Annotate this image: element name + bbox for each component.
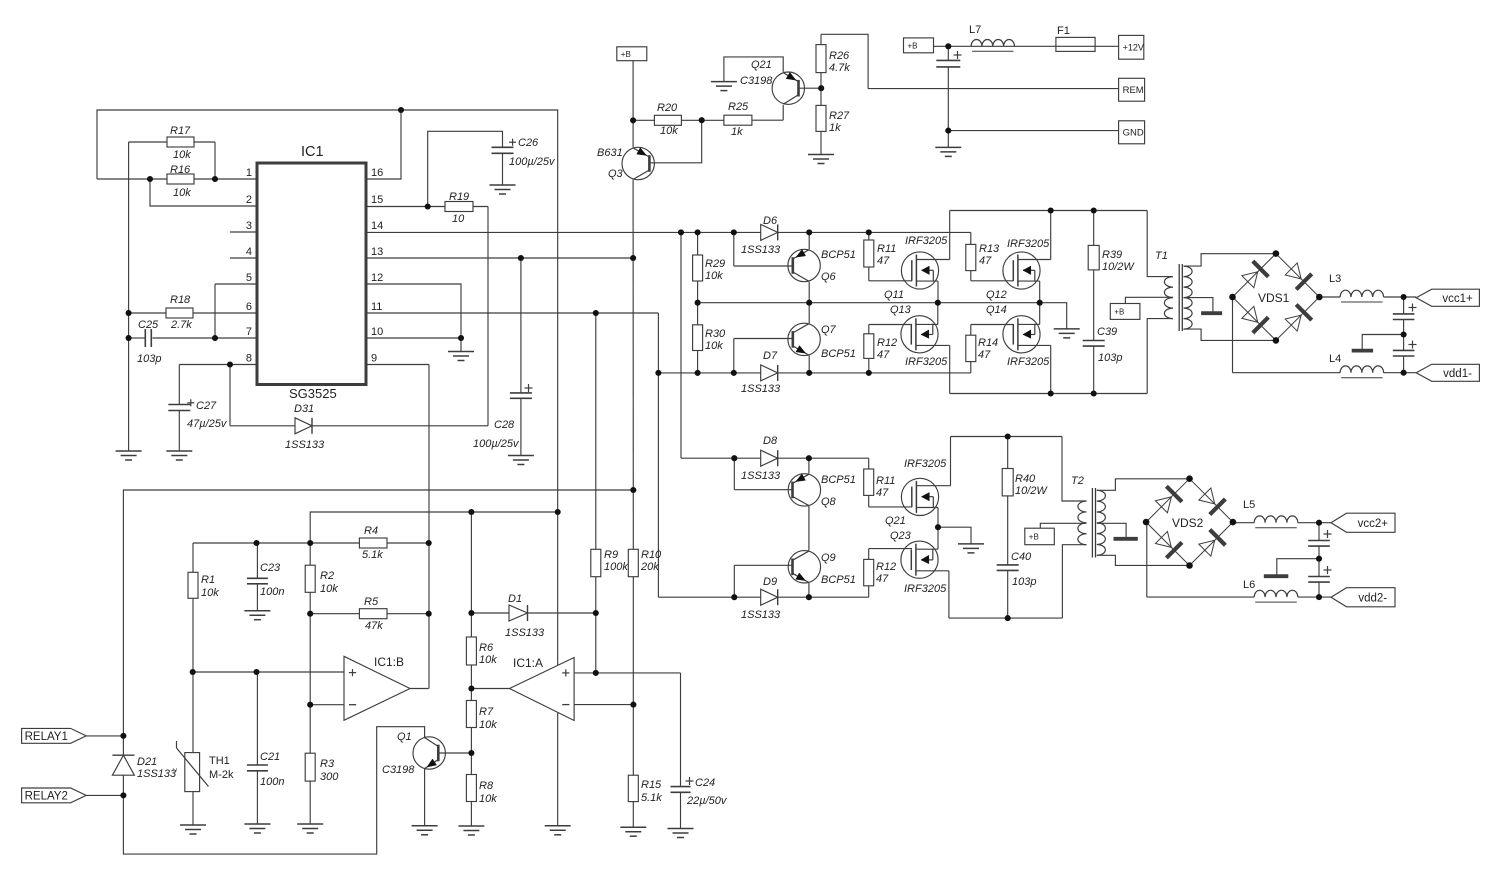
wire C28 branch xyxy=(520,258,522,393)
resistor R16 xyxy=(167,174,194,184)
svg-text:47µ/25v: 47µ/25v xyxy=(187,418,228,430)
ground R8 xyxy=(458,825,484,827)
wire VDS2 left vertex down xyxy=(1146,523,1148,597)
wire R40 C40 chain xyxy=(1007,437,1009,469)
svg-text:C25: C25 xyxy=(138,319,159,331)
ground Q1 xyxy=(412,825,438,827)
wire Q23 source xyxy=(916,548,938,550)
capacitor C25 xyxy=(144,329,146,347)
svg-text:47: 47 xyxy=(877,255,890,267)
capacitor C24 xyxy=(671,786,691,788)
wire Q13 source xyxy=(916,323,937,325)
wire L3 line vcc1 xyxy=(1319,296,1340,298)
svg-text:L7: L7 xyxy=(969,24,981,36)
diode D9 xyxy=(761,589,778,605)
ground pin10 pin12 xyxy=(448,351,474,353)
svg-text:20k: 20k xyxy=(640,561,659,573)
wire Q8 base xyxy=(733,458,735,490)
svg-text:14: 14 xyxy=(371,220,383,232)
transistor Q21 C3198 xyxy=(772,72,804,104)
tag vdd2- xyxy=(1331,588,1395,607)
svg-text:R25: R25 xyxy=(728,101,749,113)
svg-text:R26: R26 xyxy=(829,50,850,62)
svg-text:4.7k: 4.7k xyxy=(829,62,850,74)
wire pin1 line xyxy=(97,178,257,180)
svg-text:REM: REM xyxy=(1123,85,1144,96)
resistor R14 xyxy=(966,335,976,361)
svg-text:1SS133: 1SS133 xyxy=(137,768,177,780)
wire C26 branch xyxy=(428,131,503,206)
box +12V xyxy=(1119,35,1144,59)
svg-text:47k: 47k xyxy=(365,620,383,632)
wire Q21 collector loop xyxy=(724,57,783,82)
wire mid ground 1 xyxy=(1362,335,1403,350)
svg-text:R8: R8 xyxy=(479,780,494,792)
wire R14 leads xyxy=(971,324,1014,326)
svg-text:10k: 10k xyxy=(660,125,678,137)
svg-text:Q14: Q14 xyxy=(986,304,1007,316)
wire R19 right vertical xyxy=(487,207,489,426)
op-amp IC1:A xyxy=(510,658,575,721)
svg-text:D9: D9 xyxy=(763,576,777,588)
wire Q12 drain xyxy=(1018,259,1051,261)
transformer T1 xyxy=(1164,277,1173,319)
wire Q14 source xyxy=(1018,323,1040,325)
ground R3 xyxy=(297,823,323,825)
resistor R27 xyxy=(816,105,826,131)
wire opamp B output xyxy=(410,688,429,690)
svg-text:R12: R12 xyxy=(876,561,896,573)
capacitor C26 xyxy=(492,146,514,148)
junction filter xyxy=(945,43,951,49)
ground filter cap xyxy=(935,146,961,148)
svg-text:R18: R18 xyxy=(170,294,191,306)
svg-text:R7: R7 xyxy=(479,706,494,718)
wire R17 loop xyxy=(129,141,215,143)
ground C26 xyxy=(490,184,516,186)
svg-text:IRF3205: IRF3205 xyxy=(905,356,948,368)
svg-text:Q12: Q12 xyxy=(986,289,1007,301)
fuse F1 xyxy=(1056,37,1095,51)
wire bottom rail 2 xyxy=(949,617,1063,619)
wire T1 primary top lead xyxy=(1147,211,1173,277)
wire pin7 C25 line xyxy=(129,337,145,339)
svg-text:103p: 103p xyxy=(1012,576,1036,588)
svg-text:R13: R13 xyxy=(979,243,1000,255)
svg-text:L4: L4 xyxy=(1329,353,1341,365)
svg-text:9: 9 xyxy=(371,353,377,365)
wire pin13 line xyxy=(366,257,633,259)
wire R11b leads xyxy=(868,458,870,469)
svg-text:10k: 10k xyxy=(705,340,723,352)
mosfet Q14 IRF3205 xyxy=(1003,316,1040,353)
mosfet Q21 IRF3205 xyxy=(901,478,938,515)
svg-text:47: 47 xyxy=(979,255,992,267)
wire source ground 2 xyxy=(938,527,971,544)
wire R26 top loop to REM xyxy=(821,34,868,88)
IC U1 SG3525 body xyxy=(257,163,366,385)
wire output caps 1 xyxy=(1403,297,1405,314)
wire D31 line xyxy=(230,425,488,427)
ground Q21 collector xyxy=(711,81,737,83)
svg-text:+12V: +12V xyxy=(1123,42,1144,52)
transistor Q1 C3198 xyxy=(413,737,445,769)
resistor R18 xyxy=(166,308,193,318)
svg-text:L6: L6 xyxy=(1243,579,1255,591)
wire D1 line xyxy=(471,612,595,614)
transistor Q8 BCP51 xyxy=(788,474,820,506)
wire pin10 xyxy=(366,337,461,339)
wire T1 center tap to +B box xyxy=(1125,297,1173,303)
resistor R15 xyxy=(628,775,638,801)
svg-text:10k: 10k xyxy=(479,654,497,666)
svg-text:10: 10 xyxy=(452,213,465,225)
ground C27 xyxy=(166,450,192,452)
svg-text:R40: R40 xyxy=(1015,473,1036,485)
svg-text:Q1: Q1 xyxy=(397,731,412,743)
svg-text:C27: C27 xyxy=(196,400,217,412)
svg-text:R39: R39 xyxy=(1102,249,1122,261)
svg-text:TH1: TH1 xyxy=(209,755,230,767)
resistor R39 xyxy=(1088,245,1099,270)
wire RELAY1 lead xyxy=(86,735,123,737)
mosfet Q11 IRF3205 xyxy=(901,252,938,289)
svg-text:C28: C28 xyxy=(494,419,515,431)
svg-text:100n: 100n xyxy=(260,776,284,788)
wire opamp A input stub xyxy=(471,688,509,690)
resistor R11 xyxy=(864,240,874,267)
ground C21 xyxy=(244,823,270,825)
svg-text:GND: GND xyxy=(1123,127,1144,138)
ground R15 xyxy=(620,826,646,828)
svg-text:10: 10 xyxy=(371,326,383,338)
wire pin3 stub xyxy=(230,231,257,233)
T2 center tap ground bar xyxy=(1114,537,1138,541)
svg-text:2.7k: 2.7k xyxy=(170,319,192,331)
svg-text:100k: 100k xyxy=(604,561,628,573)
svg-text:2: 2 xyxy=(246,194,252,206)
wire Q21m drain xyxy=(916,485,950,487)
svg-text:C24: C24 xyxy=(695,777,715,789)
resistor R5 xyxy=(359,609,387,619)
resistor R3 xyxy=(305,753,315,781)
wire filter cap stem xyxy=(947,46,949,60)
svg-text:T1: T1 xyxy=(1155,250,1168,262)
wire R39 C39 chain xyxy=(1093,211,1095,246)
svg-text:47: 47 xyxy=(877,349,890,361)
svg-text:103p: 103p xyxy=(1098,352,1122,364)
wire pin15 R19 line xyxy=(366,206,488,208)
wire R20 R25 line xyxy=(633,119,654,121)
svg-text:F1: F1 xyxy=(1057,25,1070,37)
svg-text:100µ/25v: 100µ/25v xyxy=(473,438,520,450)
wire T2 secondary center tap xyxy=(1097,523,1126,537)
svg-text:T2: T2 xyxy=(1071,475,1084,487)
svg-text:13: 13 xyxy=(371,246,383,258)
svg-text:+B: +B xyxy=(1114,307,1124,316)
svg-text:+B: +B xyxy=(621,50,631,59)
svg-text:1SS133: 1SS133 xyxy=(741,609,781,621)
svg-text:1: 1 xyxy=(246,167,252,179)
svg-text:∪: ∪ xyxy=(173,767,178,774)
svg-text:22µ/50v: 22µ/50v xyxy=(686,795,728,807)
ground C28 xyxy=(508,455,534,457)
svg-text:6: 6 xyxy=(246,301,252,313)
svg-text:D6: D6 xyxy=(763,215,778,227)
junction dots xyxy=(398,107,404,113)
wire pin11 line xyxy=(366,312,658,314)
svg-text:RELAY2: RELAY2 xyxy=(25,790,68,802)
ground R27 xyxy=(808,154,834,156)
wire +B to L7 F1 +12V xyxy=(934,45,1119,47)
svg-text:SG3525: SG3525 xyxy=(289,386,337,401)
wire T2 secondary top xyxy=(1097,479,1190,491)
wire R5 line xyxy=(310,613,429,615)
svg-text:1SS133: 1SS133 xyxy=(505,627,545,639)
wire R9 vertical xyxy=(595,313,597,549)
resistor R8 xyxy=(466,775,476,802)
svg-text:vdd1-: vdd1- xyxy=(1443,368,1472,380)
svg-text:R11: R11 xyxy=(877,243,896,255)
svg-text:10k: 10k xyxy=(705,270,723,282)
svg-text:16: 16 xyxy=(371,167,383,179)
svg-text:1SS133: 1SS133 xyxy=(285,439,325,451)
transistor Q3 B631 xyxy=(622,147,654,179)
svg-text:300: 300 xyxy=(320,771,339,783)
svg-text:5.1k: 5.1k xyxy=(641,792,662,804)
tag vcc2+ xyxy=(1331,513,1395,532)
svg-text:Q23: Q23 xyxy=(890,530,912,542)
svg-text:R2: R2 xyxy=(320,570,334,582)
svg-text:IRF3205: IRF3205 xyxy=(904,583,947,595)
resistor R29 xyxy=(693,255,703,281)
capacitor C40 xyxy=(997,564,1019,566)
svg-text:R11: R11 xyxy=(876,475,895,487)
diode D7 xyxy=(761,365,778,381)
svg-text:R17: R17 xyxy=(170,125,191,137)
svg-text:VDS2: VDS2 xyxy=(1172,516,1204,530)
resistor R9 xyxy=(591,549,601,576)
wire Q8 Q9 collectors xyxy=(808,506,810,551)
wire Q23 drain xyxy=(916,570,949,572)
wire REM line xyxy=(868,88,1119,90)
wire opamp B plus input xyxy=(193,671,344,673)
inductor L7 xyxy=(971,39,1014,46)
wire opamp A plus line xyxy=(574,672,680,674)
diode D6 xyxy=(761,224,778,240)
wire R12 leads xyxy=(869,324,912,326)
wire pin2 xyxy=(150,179,257,206)
svg-text:100µ/25v: 100µ/25v xyxy=(509,156,556,168)
svg-text:vcc2+: vcc2+ xyxy=(1358,518,1389,530)
svg-text:IC1:A: IC1:A xyxy=(513,656,543,670)
svg-text:R12: R12 xyxy=(877,337,897,349)
svg-text:10k: 10k xyxy=(479,793,497,805)
svg-text:VDS1: VDS1 xyxy=(1258,291,1290,305)
svg-text:5.1k: 5.1k xyxy=(362,549,383,561)
wire bottom rail 1 xyxy=(950,393,1147,395)
mosfet Q12 IRF3205 xyxy=(1003,252,1040,289)
wire top rail 1 xyxy=(950,210,1147,212)
resistor R20 xyxy=(654,115,681,125)
capacitor output 2b xyxy=(1308,576,1330,578)
ground left rail xyxy=(116,450,142,452)
resistor R13 xyxy=(966,244,976,270)
svg-text:IRF3205: IRF3205 xyxy=(1007,356,1050,368)
transformer T2 xyxy=(1078,501,1087,545)
wire Q3 base loop xyxy=(650,120,702,163)
mosfet Q13 IRF3205 xyxy=(901,316,938,353)
wire opamp B minus input xyxy=(310,704,344,706)
wire pin5 xyxy=(215,283,257,285)
wire outer top loop xyxy=(97,110,558,826)
box REM xyxy=(1119,78,1145,101)
wire Q7 base xyxy=(733,339,735,373)
wire D8 line xyxy=(681,457,869,459)
svg-text:L5: L5 xyxy=(1243,499,1255,511)
thermistor TH1 xyxy=(185,753,200,792)
wire Q3 R10 R15 vertical xyxy=(632,61,634,148)
wire pin14 line xyxy=(366,231,971,233)
svg-text:Q21: Q21 xyxy=(885,515,906,527)
resistor R12 xyxy=(864,334,874,359)
svg-text:1k: 1k xyxy=(731,126,743,138)
svg-text:11: 11 xyxy=(371,301,382,313)
wire D9 line xyxy=(658,596,868,598)
T1 center tap ground bar xyxy=(1201,311,1222,315)
svg-text:Q11: Q11 xyxy=(884,289,904,301)
wire R2 R3 vertical xyxy=(309,543,311,565)
wire T1 secondary center tap xyxy=(1184,298,1213,312)
wire Q13 drain xyxy=(916,344,949,346)
wire R29 R30 vertical xyxy=(697,232,699,255)
svg-text:R10: R10 xyxy=(641,549,662,561)
svg-text:1SS133: 1SS133 xyxy=(741,383,781,395)
transistor Q7 BCP51 xyxy=(788,323,820,355)
wire pin6 R18 line xyxy=(129,312,257,314)
svg-text:IC1:B: IC1:B xyxy=(374,655,404,669)
svg-text:5: 5 xyxy=(246,272,252,284)
svg-text:C26: C26 xyxy=(518,137,539,149)
wire gate source line 1 xyxy=(698,303,1067,329)
ground TH1 xyxy=(180,824,206,826)
diode D31 xyxy=(295,418,312,434)
wire Q6 base xyxy=(733,232,735,266)
wire mid ground 2 xyxy=(1277,559,1319,575)
box -B above Q3 xyxy=(617,47,647,61)
svg-text:R4: R4 xyxy=(364,525,378,537)
svg-text:10k: 10k xyxy=(479,719,497,731)
ground C23 xyxy=(244,610,270,612)
wire output caps 2 xyxy=(1318,523,1320,541)
capacitor C39 xyxy=(1083,340,1105,342)
resistor R26 xyxy=(816,45,826,73)
wire VDS1 left vertex down xyxy=(1232,297,1234,372)
svg-text:10k: 10k xyxy=(173,149,191,161)
svg-text:15: 15 xyxy=(371,194,383,206)
capacitor C23 xyxy=(247,577,268,579)
capacitor C21 xyxy=(247,764,268,766)
resistor R25 xyxy=(724,115,752,125)
op-amp IC1:B xyxy=(344,656,410,720)
svg-text:+B: +B xyxy=(1029,532,1039,541)
wire R1 TH1 vertical xyxy=(192,598,194,752)
tag RELAY1 xyxy=(22,728,87,743)
svg-text:vcc1+: vcc1+ xyxy=(1442,293,1473,305)
svg-text:D21: D21 xyxy=(137,756,157,768)
wire Q11 source xyxy=(916,280,938,282)
svg-text:10/2W: 10/2W xyxy=(1102,261,1135,273)
svg-text:Q8: Q8 xyxy=(821,496,837,508)
inductor L3 xyxy=(1340,290,1384,297)
svg-text:C39: C39 xyxy=(1097,326,1117,338)
wire Q1 emitter xyxy=(424,769,426,826)
tag vcc1+ xyxy=(1416,289,1479,306)
wire C24 branch xyxy=(680,673,682,787)
box +B T1 center tap xyxy=(1110,304,1140,320)
wire T2 secondary bottom xyxy=(1097,555,1190,565)
wire Q12 source xyxy=(1018,280,1040,282)
wire RELAY2 lead xyxy=(86,794,123,796)
wire pin8 to D31 xyxy=(229,365,231,426)
svg-text:47: 47 xyxy=(876,487,889,499)
svg-text:+B: +B xyxy=(908,41,918,50)
svg-text:10k: 10k xyxy=(320,583,338,595)
svg-text:D31: D31 xyxy=(294,403,314,415)
svg-text:R20: R20 xyxy=(657,102,678,114)
bridge rectifier VDS1 xyxy=(1233,254,1276,297)
wire C27 stem xyxy=(178,411,180,452)
svg-text:4: 4 xyxy=(246,246,252,258)
svg-text:8: 8 xyxy=(246,353,252,365)
resistor R2 xyxy=(305,565,315,592)
resistor R10 xyxy=(628,549,638,576)
box GND xyxy=(1119,121,1145,144)
wire Q1 base xyxy=(439,752,472,754)
resistor R1 xyxy=(188,572,198,598)
transistor Q6 BCP51 xyxy=(788,249,820,281)
capacitor filter xyxy=(936,59,960,61)
svg-text:C23: C23 xyxy=(260,562,281,574)
wire pin4 stub xyxy=(230,257,257,259)
svg-text:vdd2-: vdd2- xyxy=(1358,592,1387,604)
wire Q9 emitter xyxy=(808,583,810,597)
capacitor C27 xyxy=(168,404,190,406)
wire pin12 xyxy=(366,284,461,338)
svg-text:L3: L3 xyxy=(1329,273,1341,285)
wire Q21m source xyxy=(916,507,938,509)
wire R4 line xyxy=(193,542,429,544)
wire Q11 drain xyxy=(916,259,949,261)
capacitor C28 xyxy=(510,392,532,394)
diode D21 xyxy=(112,754,134,756)
tag vdd1- xyxy=(1416,364,1479,381)
svg-text:R19: R19 xyxy=(449,191,469,203)
svg-text:C3198: C3198 xyxy=(382,764,415,776)
svg-text:R1: R1 xyxy=(201,574,215,586)
resistor R17 xyxy=(167,137,194,147)
wire C21 stem xyxy=(256,672,258,765)
svg-text:IC1: IC1 xyxy=(301,144,324,160)
wire pin14 down to D8 xyxy=(680,232,682,458)
svg-text:BCP51: BCP51 xyxy=(821,474,856,486)
wire R6 R7 R8 vertical xyxy=(470,512,472,637)
wire R11 leads xyxy=(868,232,870,240)
wire L4 line vdd1 xyxy=(1233,372,1341,374)
svg-text:1SS133: 1SS133 xyxy=(741,470,781,482)
svg-text:IRF3205: IRF3205 xyxy=(904,458,947,470)
svg-text:1k: 1k xyxy=(829,122,841,134)
